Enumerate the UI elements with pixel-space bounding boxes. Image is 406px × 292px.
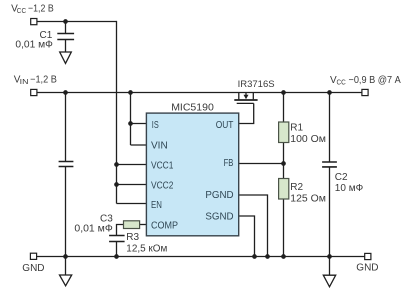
svg-text:IS: IS bbox=[152, 120, 159, 131]
node junction gnd-SGND bbox=[252, 254, 257, 259]
node junction rail-R1 bbox=[281, 90, 286, 95]
svg-text:GND: GND bbox=[22, 263, 44, 274]
wire C1 branch bbox=[65, 22, 67, 34]
wire FB pin stub bbox=[239, 163, 284, 165]
svg-text:100 Ом: 100 Ом bbox=[290, 134, 326, 145]
svg-text:125 Ом: 125 Ом bbox=[290, 193, 326, 204]
capacitor C3 bbox=[109, 236, 125, 242]
node junction IS bbox=[128, 121, 133, 126]
svg-text:MIC5190: MIC5190 bbox=[171, 102, 214, 114]
wire left ground drop bbox=[65, 257, 67, 276]
transistor Q1 channel bar bbox=[234, 99, 257, 101]
IC U1 MIC5190 body bbox=[146, 113, 238, 236]
transistor Q1 arrowhead bbox=[244, 95, 249, 100]
svg-text:GND: GND bbox=[356, 263, 378, 274]
node junction Vin-left capacitor bbox=[63, 90, 68, 95]
resistor R2 body bbox=[279, 179, 289, 200]
node junction gnd-C3 bbox=[114, 254, 119, 259]
resistor R3 body bbox=[124, 221, 140, 229]
svg-text:R1: R1 bbox=[290, 123, 303, 134]
wire COMP pin stub bbox=[140, 224, 147, 226]
svg-text:OUT: OUT bbox=[216, 120, 234, 131]
svg-text:0,01 мФ: 0,01 мФ bbox=[74, 224, 113, 235]
label Vin -1,2 V bbox=[14, 74, 57, 86]
svg-text:CC: CC bbox=[337, 78, 347, 87]
wire FB junction to R2 bbox=[283, 164, 285, 179]
node junction gnd-PGND bbox=[265, 254, 270, 259]
svg-text:C2: C2 bbox=[335, 172, 348, 183]
node junction FB-R1-R2 bbox=[281, 161, 286, 166]
label Vcc -1,2 V bbox=[11, 3, 54, 15]
transistor Q1 gate plate bbox=[237, 102, 254, 104]
node junction gnd-R2 bbox=[281, 254, 286, 259]
label Vcc -0,9 V @7 A bbox=[330, 75, 401, 87]
svg-text:−1,2 В: −1,2 В bbox=[30, 74, 57, 85]
svg-text:0,01 мФ: 0,01 мФ bbox=[15, 40, 53, 51]
svg-text:EN: EN bbox=[151, 200, 162, 211]
wire R3 to C3 corner bbox=[117, 225, 124, 236]
transistor Q1 body arrow shaft bbox=[245, 93, 247, 96]
wire C1 to ground bbox=[65, 40, 67, 52]
wire Vcc vertical drop to EN bbox=[116, 21, 118, 204]
svg-text:COMP: COMP bbox=[151, 221, 178, 232]
transistor Q1 drain stub bbox=[252, 93, 254, 100]
node junction Vin-IS branch bbox=[128, 90, 133, 95]
wire C2 branch upper bbox=[329, 93, 331, 163]
svg-text:VCC2: VCC2 bbox=[151, 180, 174, 191]
svg-text:R3: R3 bbox=[126, 232, 139, 243]
svg-text:VIN: VIN bbox=[151, 140, 168, 151]
svg-text:VCC1: VCC1 bbox=[151, 161, 174, 172]
node junction VCC2 bbox=[114, 182, 119, 187]
capacitor C1 bbox=[57, 34, 74, 40]
terminal GND left bbox=[30, 253, 36, 259]
svg-text:R2: R2 bbox=[290, 182, 303, 193]
node junction VCC1 bbox=[114, 162, 119, 167]
capacitor (unlabeled, left) bbox=[59, 162, 74, 167]
wire Vin rail bbox=[37, 92, 362, 94]
svg-text:IR3716S: IR3716S bbox=[238, 79, 275, 90]
resistor R1 body bbox=[279, 122, 289, 143]
ground symbol bottom right bbox=[323, 275, 335, 287]
node junction Vcc-C1 bbox=[63, 19, 68, 24]
ground symbol below C1 bbox=[60, 52, 72, 63]
wire R1 branch top bbox=[283, 93, 285, 123]
transistor Q1 IR3716S source stub bbox=[238, 93, 240, 100]
terminal Vin input bbox=[31, 89, 37, 95]
capacitor C2 bbox=[322, 162, 337, 167]
wire R2 to ground rail bbox=[283, 199, 285, 257]
svg-text:10 мФ: 10 мФ bbox=[335, 183, 364, 194]
wire VCC2 pin stub bbox=[117, 184, 148, 186]
node junction rail-C2 bbox=[327, 90, 332, 95]
wire R1 to FB junction bbox=[283, 142, 285, 163]
wire GND bottom rail bbox=[37, 256, 365, 258]
terminal Vcc output bbox=[362, 89, 368, 95]
svg-text:IN: IN bbox=[20, 77, 29, 86]
wire right ground drop bbox=[329, 257, 331, 276]
terminal Vcc input bbox=[31, 19, 37, 25]
svg-text:12,5 кОм: 12,5 кОм bbox=[126, 243, 167, 254]
wire left capacitor branch upper bbox=[65, 93, 67, 162]
svg-text:PGND: PGND bbox=[205, 190, 233, 201]
svg-text:−1,2 В: −1,2 В bbox=[28, 3, 54, 14]
wire EN pin stub bbox=[117, 203, 148, 205]
wire C3 to ground rail bbox=[116, 242, 118, 257]
wire left capacitor branch lower bbox=[65, 167, 67, 257]
wire SGND pin stub bbox=[239, 216, 255, 257]
wire VCC1 pin stub bbox=[117, 164, 148, 166]
svg-text:CC: CC bbox=[17, 6, 27, 15]
wire VIN pin stub bbox=[131, 144, 148, 146]
node junction gnd-C2 bbox=[327, 254, 332, 259]
wire Vcc top rail bbox=[37, 21, 117, 23]
terminal GND right bbox=[365, 253, 371, 259]
wire IS/VIN branch vertical bbox=[130, 93, 132, 146]
svg-text:FB: FB bbox=[224, 158, 234, 169]
node junction gnd-left cap bbox=[63, 254, 68, 259]
wire gate lead to OUT pin bbox=[239, 103, 254, 123]
wire C2 branch lower bbox=[329, 168, 331, 257]
svg-text:SGND: SGND bbox=[205, 212, 233, 223]
wire PGND pin stub bbox=[239, 195, 268, 257]
wire IS pin stub bbox=[131, 123, 148, 125]
svg-text:−0,9 В @7 А: −0,9 В @7 А bbox=[349, 75, 402, 86]
ground symbol bottom left bbox=[60, 275, 72, 286]
